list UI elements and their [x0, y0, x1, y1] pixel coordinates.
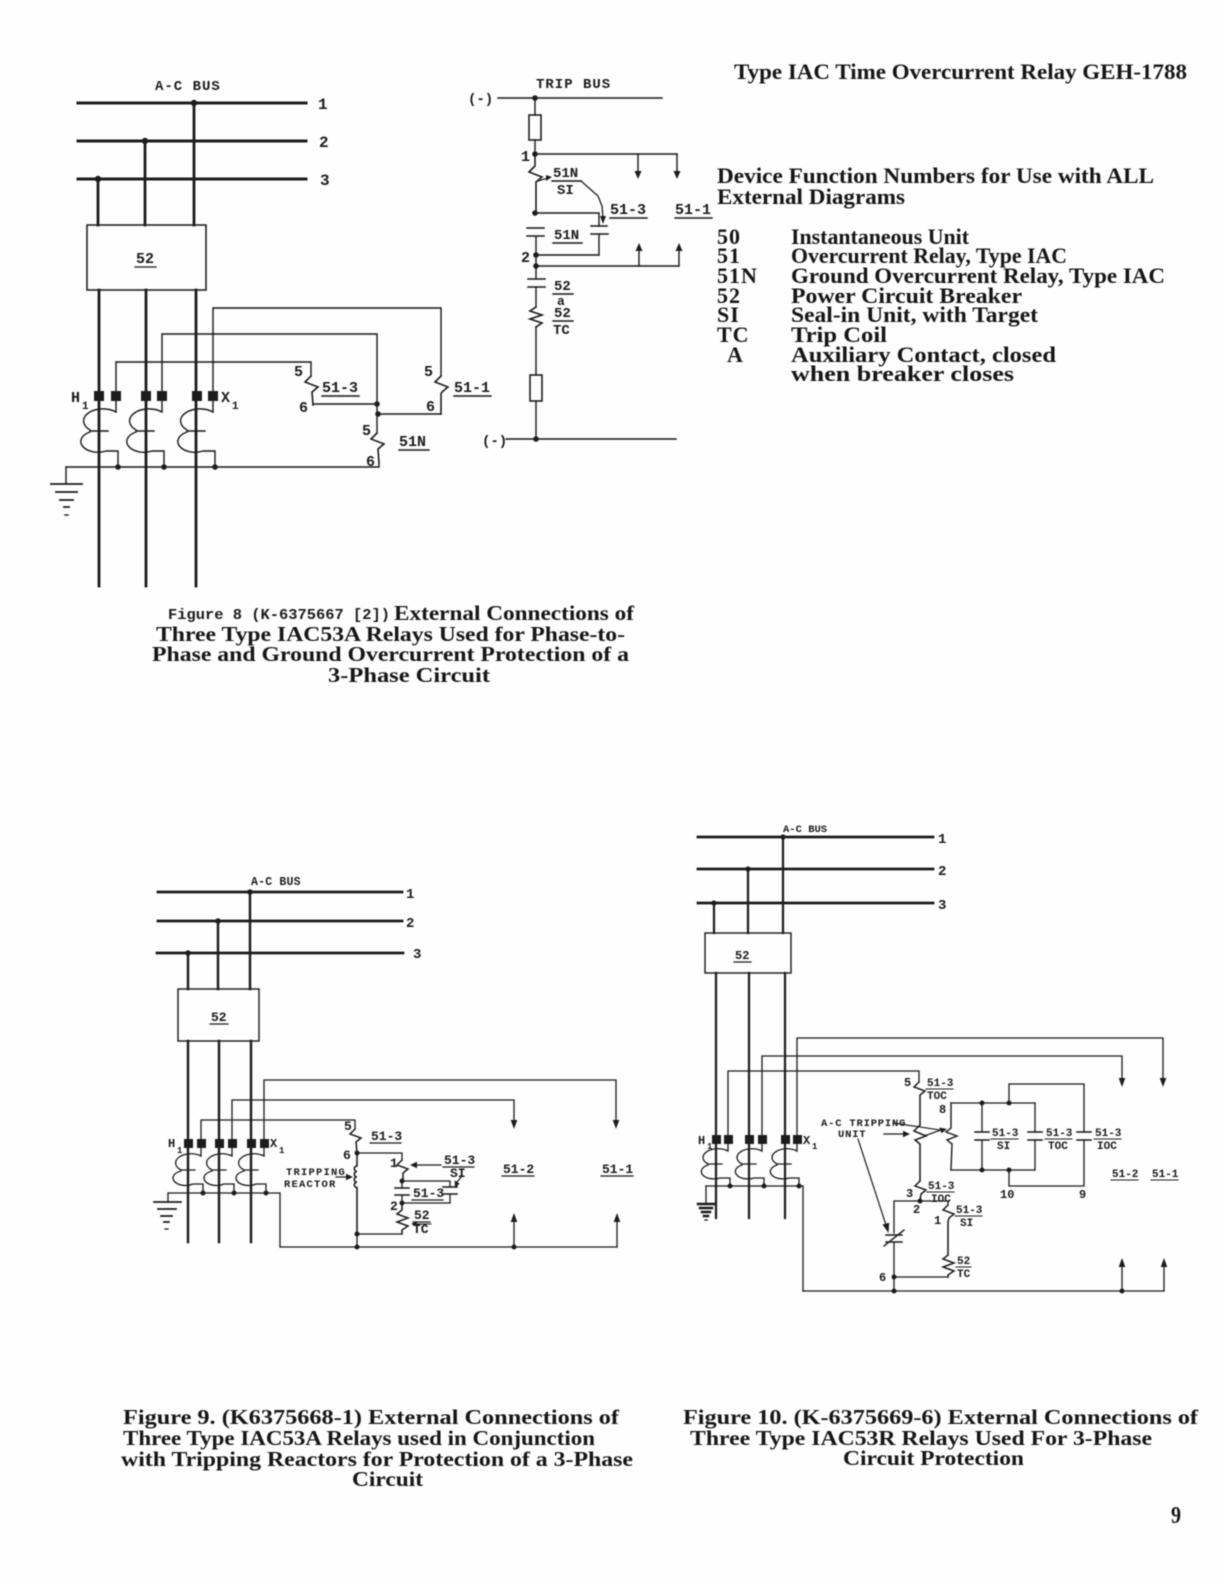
breaker 52 box: [178, 989, 259, 1041]
wire label arrow to reactor: [336, 1176, 347, 1178]
svg-text:52: 52: [136, 251, 154, 268]
wire TC bottom to reactor line: [357, 1233, 402, 1235]
ground: [51, 484, 82, 507]
svg-text:51-3: 51-3: [992, 1128, 1019, 1140]
node junction pin6: [355, 1151, 360, 1156]
network left rail with target zigzag: [946, 1103, 957, 1170]
wire node2 down: [535, 236, 537, 279]
CT phase-a secondary winding: [81, 409, 118, 467]
svg-text:52: 52: [957, 1256, 970, 1268]
CT phase-a primary marks: [184, 1139, 193, 1148]
svg-text:1: 1: [812, 1142, 818, 1152]
wire phase 3 below breaker: [715, 973, 717, 1218]
svg-text:1: 1: [390, 1156, 398, 1171]
node return/CT2: [161, 464, 167, 470]
CT phase-a secondary lead: [115, 401, 117, 412]
coil 52/TC: [943, 1255, 954, 1277]
wire 51-3 pin6 to junction: [313, 403, 377, 405]
contact 51N/SI seal-in: [529, 154, 542, 213]
svg-text:1: 1: [279, 1146, 285, 1156]
wire phase 1 below breaker: [195, 290, 198, 586]
CT phase-b secondary winding: [204, 1148, 234, 1193]
wire phase 3 below breaker: [98, 290, 101, 586]
wire junction to contact 51N: [376, 404, 378, 433]
wire arrow into contact: [416, 1164, 441, 1166]
svg-text:1: 1: [521, 149, 530, 166]
wire arrow down b: [676, 154, 678, 172]
breaker 52 box: [87, 225, 206, 290]
wire phase 2 dropper: [144, 141, 147, 225]
svg-text:52: 52: [554, 279, 571, 295]
svg-text:52: 52: [211, 1010, 227, 1025]
svg-text:1: 1: [318, 96, 328, 114]
svg-text:6: 6: [299, 400, 308, 417]
wire phase 3 dropper: [97, 179, 100, 225]
svg-text:REACTOR: REACTOR: [284, 1179, 337, 1191]
wire bottom bus: [280, 1246, 617, 1248]
svg-text:2: 2: [406, 916, 414, 932]
network top rail: [951, 1102, 1035, 1104]
contact 51-3/IOC lower: [915, 1181, 926, 1201]
wire to trip coil: [535, 287, 537, 307]
wire phase 1 below breaker: [784, 973, 786, 1218]
capacitor 51-3/SI branch: [981, 1103, 983, 1170]
wire bus phase 1: [78, 102, 306, 105]
node junction 6-51-3: [374, 401, 380, 407]
CT phase-c primary marks: [781, 1135, 790, 1144]
wire 51-1 up arrow: [1163, 1266, 1165, 1291]
wire to bottom bus: [356, 1234, 358, 1247]
svg-text:1: 1: [82, 401, 89, 413]
wire secondary return: [168, 1192, 280, 1194]
wire phase 2 below breaker: [145, 290, 148, 586]
wire seal-in return: [402, 1202, 450, 1204]
node junction bottom: [355, 1245, 360, 1250]
svg-text:SI: SI: [557, 183, 574, 199]
wire ground stub: [167, 1193, 169, 1202]
svg-text:X: X: [221, 390, 230, 407]
wire phase 1 dropper: [249, 892, 251, 989]
wire phase 2 dropper: [217, 921, 219, 989]
wire phase 3 dropper: [713, 903, 715, 933]
wire CT3 to contact 51-3 TOC: [728, 1071, 919, 1135]
wire label line to rail zigzag: [893, 1123, 940, 1130]
wire arm to network: [924, 1130, 941, 1136]
svg-text:1: 1: [938, 832, 946, 848]
wire phase 2 below breaker: [218, 1041, 220, 1242]
node junction bus1/dropper: [191, 100, 197, 106]
wire 51-1 pin6 to junction: [378, 413, 441, 415]
wire CT1 to 51-1 arrow: [264, 1080, 616, 1139]
CAPTIONS_START: [121, 601, 1199, 1529]
svg-text:52: 52: [735, 949, 749, 963]
wire CT3 secondary to contact 51-1: [213, 308, 441, 391]
CT phase-c primary marks: [247, 1139, 256, 1148]
CT phase-b secondary winding: [127, 409, 164, 467]
svg-text:51N: 51N: [554, 228, 579, 244]
breaker 52 box: [705, 933, 791, 973]
node junction node2 wire: [533, 263, 539, 269]
contact 51-1: [435, 376, 448, 414]
svg-text:(-): (-): [468, 92, 493, 108]
contact 51-3/SI: [397, 1160, 408, 1181]
wire CT2 to 51-2 arrow: [232, 1100, 514, 1139]
wire phase 1 below breaker: [250, 1041, 252, 1242]
CT phase-b primary marks: [745, 1135, 754, 1144]
svg-text:2: 2: [390, 1199, 398, 1214]
CT phase-a primary marks: [712, 1135, 721, 1144]
svg-text:51-3: 51-3: [956, 1205, 983, 1217]
svg-text:TC: TC: [957, 1269, 971, 1281]
wire to seal-in capacitor branch: [535, 213, 599, 226]
CT phase-c secondary winding: [178, 409, 215, 467]
svg-text:TC: TC: [553, 323, 570, 339]
node 2 of relay: [400, 1201, 405, 1206]
wire 51-1 up arrow: [616, 1221, 618, 1247]
wire CT1 to 51-1 arrow: [797, 1038, 1163, 1135]
FIG9_START: [154, 876, 633, 1250]
CT phase-b primary marks: [215, 1139, 224, 1148]
svg-text:TOC: TOC: [927, 1091, 947, 1103]
svg-text:3-Phase Circuit: 3-Phase Circuit: [328, 663, 490, 687]
svg-text:1: 1: [406, 887, 414, 903]
network bottom rail: [951, 1169, 1035, 1171]
node return/CT3: [212, 464, 218, 470]
svg-text:51-3: 51-3: [1095, 1128, 1122, 1140]
svg-text:5: 5: [294, 364, 303, 381]
svg-text:51-3: 51-3: [927, 1078, 954, 1090]
wire node2 left branch: [894, 1201, 920, 1233]
svg-text:6: 6: [879, 1271, 886, 1285]
wire bus phase 3: [698, 902, 933, 905]
svg-text:Circuit Protection: Circuit Protection: [843, 1446, 1024, 1470]
ground: [698, 1204, 714, 1216]
wire CT2 secondary to node 51N: [162, 334, 377, 404]
fuse F2 bottom: [530, 375, 542, 401]
wire bus phase 3: [157, 952, 403, 955]
svg-text:9: 9: [1079, 1188, 1086, 1202]
wire to seal-in capacitor: [402, 1181, 450, 1187]
capacitor 51-3 operating coil: [395, 1188, 409, 1195]
svg-text:51-3: 51-3: [928, 1181, 955, 1193]
wire node6 to bottom bus: [893, 1277, 895, 1291]
wire CT2 to 51-2 arrow: [762, 1056, 1122, 1135]
wire phase 1 dropper: [782, 837, 784, 933]
wire bus phase 2: [698, 868, 933, 871]
svg-text:Circuit: Circuit: [352, 1467, 423, 1491]
svg-text:A-C BUS: A-C BUS: [155, 79, 221, 95]
svg-text:10: 10: [1000, 1188, 1014, 1202]
svg-text:3: 3: [938, 898, 946, 914]
reactor tripping reactor: [354, 1153, 357, 1234]
svg-text:51-3: 51-3: [322, 380, 358, 397]
wire label arrow to variable unit: [858, 1139, 886, 1225]
wire bus phase 1: [158, 891, 402, 894]
svg-text:5: 5: [904, 1076, 911, 1090]
svg-text:51-1: 51-1: [675, 202, 711, 219]
wire node1 to other phases: [535, 153, 677, 155]
varistor a-c tripping element: [884, 1230, 904, 1246]
svg-text:51N: 51N: [553, 166, 578, 182]
svg-text:TRIP BUS: TRIP BUS: [536, 77, 611, 93]
node 1: [532, 151, 538, 157]
wire trip bus bottom: [506, 438, 676, 440]
wire 51-2 up arrow: [513, 1221, 515, 1247]
svg-text:1: 1: [232, 401, 239, 413]
svg-text:51-1: 51-1: [454, 380, 490, 397]
svg-text:51-3: 51-3: [371, 1129, 402, 1144]
contact A-C tripping unit: [914, 1125, 926, 1181]
node 2: [533, 252, 539, 258]
svg-text:SI: SI: [997, 1141, 1010, 1153]
svg-text:X: X: [803, 1134, 811, 1148]
contact 51-3/SI lower: [943, 1205, 954, 1255]
svg-text:8: 8: [939, 1103, 946, 1117]
CT phase-a secondary winding: [701, 1144, 730, 1186]
svg-text:51-3: 51-3: [413, 1186, 444, 1201]
wire bus phase 1: [698, 836, 933, 839]
ground: [154, 1202, 181, 1222]
capacitor seal-in unit (51-3 SI): [591, 226, 608, 234]
capacitor 52 a auxiliary contact: [528, 279, 545, 287]
wire to fuse: [534, 98, 536, 115]
svg-text:1: 1: [177, 1146, 183, 1156]
wire secondary return: [706, 1185, 803, 1187]
contact 51-3: [305, 376, 318, 405]
coil 52/TC trip coil: [530, 307, 542, 327]
svg-text:52: 52: [554, 306, 571, 322]
wire phase 2 below breaker: [748, 973, 750, 1218]
TEXT_START: [717, 59, 1187, 386]
wire bus phase 2: [78, 140, 306, 143]
FIG10_START: [698, 824, 1179, 1294]
wire node2 to other phases: [536, 265, 679, 267]
svg-text:SI: SI: [960, 1218, 973, 1230]
svg-text:A-C BUS: A-C BUS: [251, 876, 301, 889]
svg-text:3: 3: [906, 1187, 913, 1201]
coil 52/TC trip coil: [397, 1203, 408, 1234]
svg-text:A-C BUS: A-C BUS: [783, 824, 827, 836]
svg-text:6: 6: [366, 454, 375, 471]
capacitor 51-3/TOC branch (right rail): [1034, 1103, 1036, 1170]
TRIP_START: [468, 77, 712, 450]
wire to fuse bottom: [535, 327, 537, 375]
wire CT1 secondary to contact 51-3: [116, 362, 311, 391]
node 2: [918, 1199, 923, 1204]
CT phase-b secondary lead: [161, 401, 163, 412]
wire label arrow to contact: [884, 1133, 903, 1135]
svg-text:SI: SI: [450, 1166, 466, 1181]
svg-text:TOC: TOC: [1048, 1141, 1068, 1153]
wire secondary return: [66, 463, 379, 467]
capacitor 51-3/IOC: [1077, 1132, 1091, 1140]
svg-text:6: 6: [343, 1148, 351, 1163]
CT phase-b secondary winding: [735, 1144, 764, 1186]
FIG8_START: [51, 79, 491, 586]
capacitor 51N operating coil: [527, 228, 544, 236]
network outer loop: [1009, 1084, 1084, 1186]
wire phase 3 dropper: [187, 953, 189, 989]
svg-text:51-3: 51-3: [1046, 1128, 1073, 1140]
CT phase-a primary marks: [94, 391, 104, 401]
svg-text:(-): (-): [482, 434, 507, 450]
svg-text:51-1: 51-1: [1152, 1169, 1179, 1181]
wire pin6 to relay branch: [357, 1153, 402, 1160]
svg-text:5: 5: [362, 423, 371, 440]
svg-text:51-1: 51-1: [602, 1162, 633, 1177]
node junction seal-in tap: [400, 1179, 405, 1184]
svg-text:2: 2: [938, 864, 946, 880]
wire bus phase 2: [158, 920, 402, 923]
svg-text:51-2: 51-2: [503, 1162, 534, 1177]
svg-text:A: A: [727, 342, 743, 367]
node junction bus3/dropper: [95, 176, 101, 182]
svg-text:5: 5: [424, 364, 433, 381]
svg-text:2: 2: [521, 250, 530, 267]
wire seal-in return to node 2: [536, 254, 599, 256]
contact 51-3: [350, 1129, 361, 1153]
wire arm to seal-in capacitor: [581, 181, 603, 217]
capacitor seal-in: [443, 1187, 457, 1194]
svg-text:IOC: IOC: [1097, 1141, 1117, 1153]
node junction seal-in tap: [532, 210, 538, 216]
wire arrow up a: [638, 250, 640, 266]
svg-text:1: 1: [934, 1214, 941, 1228]
CT phase-c secondary winding: [236, 1148, 266, 1193]
svg-text:51-3: 51-3: [610, 202, 646, 219]
node return/CT1: [115, 464, 121, 470]
CT phase-c secondary winding: [770, 1144, 799, 1186]
wire bus phase 3: [78, 178, 306, 181]
node junction bus2/dropper: [142, 138, 148, 144]
svg-text:X: X: [270, 1137, 278, 1151]
wire phase 3 below breaker: [187, 1041, 189, 1242]
CT phase-a secondary winding: [173, 1148, 203, 1193]
svg-text:2: 2: [319, 134, 329, 152]
wire return to bottom bus: [279, 1193, 281, 1247]
svg-text:52: 52: [414, 1208, 430, 1223]
wire arrow up b: [678, 250, 680, 266]
wire SI arrow to capacitor: [457, 1176, 462, 1182]
svg-text:External Diagrams: External Diagrams: [717, 184, 905, 209]
CT phase-c secondary lead: [212, 401, 214, 412]
svg-text:9: 9: [1171, 1503, 1181, 1529]
fuse F1 top: [529, 115, 541, 140]
wire phase 2 dropper: [747, 869, 749, 933]
svg-text:3: 3: [320, 172, 330, 190]
node junction 6-51-1: [375, 411, 381, 417]
node junction bottom bus: [533, 436, 539, 442]
CT phase-b primary marks: [141, 391, 151, 401]
wire 51-2 up arrow: [1121, 1266, 1123, 1291]
svg-text:UNIT: UNIT: [838, 1129, 866, 1141]
svg-text:3: 3: [413, 947, 421, 963]
node junction trip bus: [532, 95, 538, 101]
wire node2 right branch: [920, 1201, 948, 1205]
svg-text:2: 2: [913, 1203, 920, 1217]
svg-text:51-2: 51-2: [1112, 1169, 1138, 1181]
wire trip bus top: [498, 97, 662, 99]
contact 51-3/TOC: [914, 1082, 925, 1125]
wire bottom bus: [803, 1290, 1164, 1292]
wire arrow down a: [637, 154, 639, 172]
node junction reactor bottom: [355, 1232, 360, 1237]
CT phase-c primary marks: [192, 391, 202, 401]
svg-text:when breaker closes: when breaker closes: [791, 361, 1015, 386]
wire capacitor to node 2: [401, 1181, 403, 1203]
contact 51N: [371, 433, 384, 463]
wire TC arrow: [416, 1223, 431, 1225]
wire ground stub: [705, 1186, 707, 1203]
wire node 6: [894, 1276, 948, 1278]
wire CT3 to contact 51-3: [201, 1120, 355, 1139]
wire ground stub: [65, 467, 67, 484]
svg-text:H: H: [698, 1134, 705, 1148]
wire return to bottom bus: [802, 1186, 804, 1291]
svg-text:5: 5: [344, 1119, 352, 1134]
svg-text:Type IAC Time Overcurrent Rela: Type IAC Time Overcurrent Relay GEH-1788: [734, 59, 1187, 84]
svg-text:51N: 51N: [399, 434, 426, 451]
svg-text:H: H: [71, 390, 80, 407]
svg-text:H: H: [168, 1137, 175, 1151]
wire phase 1 dropper: [193, 103, 196, 225]
